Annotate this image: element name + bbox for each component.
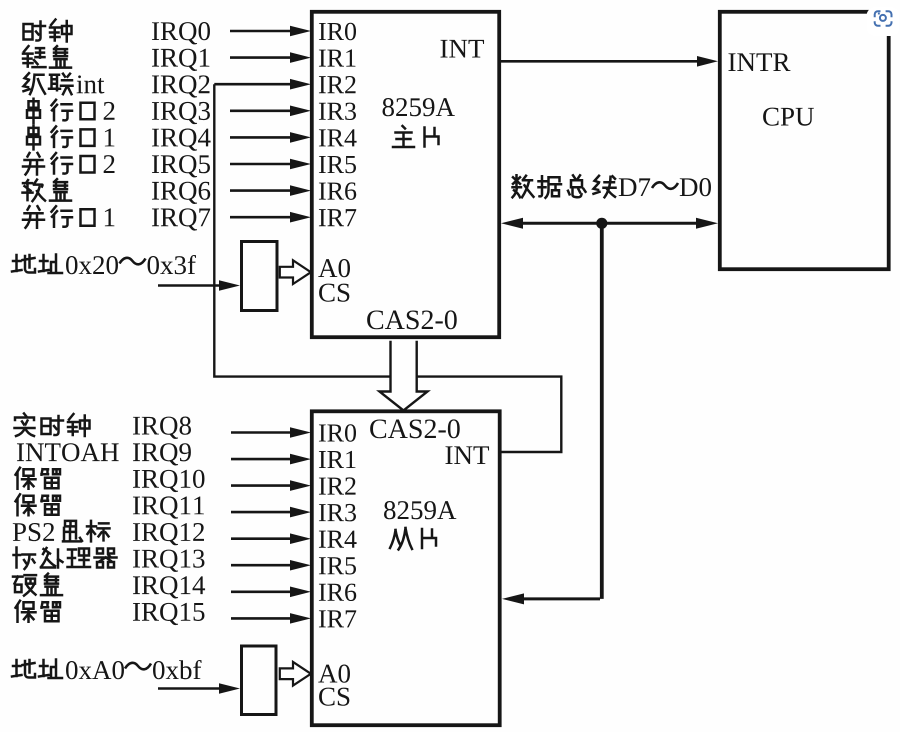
pin IR0 (slave)	[319, 424, 356, 442]
op 8259A master box U1	[312, 12, 499, 337]
wire IRQ2 to IR2 (master)	[214, 79, 311, 90]
wire IRQ4 to IR4 (master)	[230, 132, 311, 143]
label 保留	[16, 601, 61, 622]
label INTOAH	[17, 443, 119, 461]
label IRQ2	[152, 75, 210, 97]
pin INT (slave)	[445, 446, 489, 464]
label 数据总线D7~D0	[513, 175, 711, 198]
label 地址0xA0~0xbf	[12, 660, 201, 680]
wire IRQ15 to IR7 (slave)	[231, 613, 311, 624]
label 保留	[16, 468, 61, 489]
pin IR2 (master)	[319, 76, 356, 93]
label 并行口1	[23, 206, 114, 228]
label 级联int	[24, 73, 105, 94]
pin IR2 (slave)	[319, 477, 356, 494]
wire data bus branch to slave	[502, 593, 600, 604]
label IRQ13	[133, 550, 204, 572]
wire data bus vertical	[600, 223, 604, 599]
pin IR7 (master)	[319, 209, 356, 226]
label CPU	[763, 108, 814, 126]
pin CAS2-0 (slave)	[370, 419, 460, 438]
pin IR0 (master)	[319, 23, 356, 41]
pin CS (master)	[319, 284, 349, 302]
wire IRQ5 to IR5 (master)	[230, 159, 311, 170]
label 主片	[393, 126, 439, 147]
label 8259A slave	[384, 501, 456, 519]
pin IR7 (slave)	[319, 610, 356, 627]
pin IR4 (slave)	[319, 531, 357, 548]
label 时钟	[24, 20, 72, 42]
wire slave INT to master IRQ2	[214, 84, 561, 452]
label 保留	[16, 494, 61, 515]
label 协处理器	[14, 548, 117, 570]
label 软盘	[23, 179, 72, 201]
label 键盘	[23, 46, 71, 68]
label 8259A master	[383, 98, 455, 116]
pin IR1 (master)	[319, 49, 355, 66]
label IRQ8	[133, 417, 191, 439]
wire IRQ8 to IR0 (slave)	[231, 427, 311, 438]
wire address to decoder (slave)	[158, 683, 240, 694]
wire data bus horizontal (bidirectional)	[501, 218, 718, 229]
wire IRQ9 to IR1 (slave)	[231, 454, 311, 465]
pin A0 (slave)	[318, 665, 350, 683]
hollow arrow decoder to A0/CS (master)	[280, 260, 311, 284]
address decoder box (master)	[242, 242, 278, 311]
CPU box	[720, 12, 889, 269]
label 硬盘	[13, 574, 62, 596]
pin INT (master)	[440, 40, 484, 58]
label 地址0x20~0x3f	[12, 255, 196, 275]
address decoder box (slave)	[242, 646, 277, 715]
label IRQ1	[152, 49, 209, 71]
label 并行口2	[23, 153, 115, 175]
label IRQ6	[152, 182, 210, 204]
label 串行口1	[27, 125, 114, 149]
label IRQ4	[152, 129, 211, 151]
label 从片	[390, 528, 436, 550]
wire IRQ13 to IR5 (slave)	[231, 560, 311, 571]
pin IR6 (slave)	[319, 584, 356, 601]
wire IRQ14 to IR6 (slave)	[231, 587, 311, 598]
label IRQ10	[133, 470, 204, 492]
wire IRQ11 to IR3 (slave)	[231, 507, 311, 518]
bus arrow CAS2-0 master to slave (hollow)	[380, 341, 428, 411]
wire address to decoder (master)	[158, 280, 240, 291]
pin A0 (master)	[318, 259, 350, 277]
wire IRQ6 to IR6 (master)	[230, 185, 311, 196]
pin IR5 (slave)	[319, 557, 356, 574]
pin IR4 (master)	[319, 129, 357, 146]
hollow arrow decoder to A0/CS (slave)	[280, 662, 311, 686]
pin IR6 (master)	[319, 182, 356, 199]
pin INTR (CPU)	[728, 53, 790, 71]
lens search button overlay	[867, 7, 900, 36]
pin IR1 (slave)	[319, 451, 355, 468]
label IRQ7	[152, 208, 210, 230]
wire IRQ3 to IR3 (master)	[230, 106, 311, 117]
label IRQ14	[133, 576, 205, 598]
pin IR3 (slave)	[319, 504, 356, 521]
label IRQ5	[152, 155, 210, 177]
label 实时钟	[15, 414, 90, 437]
label 串行口2	[27, 99, 115, 123]
pin CAS2-0 (master)	[367, 310, 457, 329]
wire INT master to CPU INTR	[499, 56, 718, 67]
junction node on data bus	[596, 218, 607, 229]
8259A slave box U2	[312, 411, 500, 725]
pin IR5 (master)	[319, 156, 356, 173]
pin IR3 (master)	[319, 103, 356, 120]
wire IRQ10 to IR2 (slave)	[231, 480, 311, 491]
label IRQ15	[133, 603, 204, 625]
label IRQ11	[133, 496, 204, 518]
wire IRQ12 to IR4 (slave)	[231, 533, 311, 544]
label IRQ9	[133, 443, 191, 465]
label IRQ3	[152, 102, 210, 124]
label PS2鼠标	[13, 521, 110, 542]
wire IRQ1 to IR1 (master)	[230, 52, 311, 63]
label IRQ12	[133, 523, 204, 545]
label IRQ0	[152, 22, 210, 44]
wire IRQ0 to IR0 (master)	[230, 26, 311, 37]
pin CS (slave)	[319, 688, 349, 706]
wire IRQ7 to IR7 (master)	[230, 212, 311, 223]
